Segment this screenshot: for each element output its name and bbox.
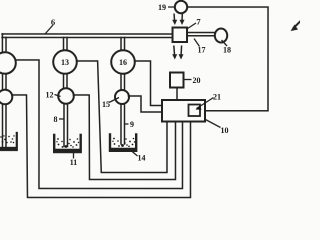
leader line label 7 (186, 23, 196, 30)
controller box 10 (162, 100, 205, 122)
stipple in beaker 1 (0, 135, 15, 143)
wire dispenser1 to controller (12, 95, 191, 198)
dispenser 15 (115, 90, 129, 104)
pump 13 (53, 50, 77, 74)
leader line label 14 (131, 150, 138, 156)
dial 19 (175, 1, 187, 13)
arrowhead for label 21 (195, 106, 201, 110)
arrow from dial 19 to gearbox (right) (181, 14, 183, 22)
shaft drop to pump column 1 (2, 34, 6, 53)
beaker 11 (center) (54, 135, 81, 152)
drive shaft bus 6 (double line) (2, 34, 173, 38)
wire dispenser15 to controller (128, 96, 162, 112)
stirrer rod 9 (121, 103, 125, 144)
svg-text:8: 8 (53, 115, 57, 124)
shaft between pump 13 and dispenser 12 (64, 73, 68, 88)
leader line label 10 (205, 120, 220, 128)
wire pump1 to controller (15, 60, 182, 189)
figure pointer arrow top right (293, 21, 301, 29)
svg-text:13: 13 (61, 58, 69, 67)
pump 16 (111, 50, 135, 74)
display 21 (188, 105, 200, 117)
svg-text:19: 19 (158, 3, 166, 12)
stipple in beaker 14 (112, 138, 135, 148)
svg-text:15: 15 (102, 100, 110, 109)
leader line label 19 (168, 6, 175, 8)
wire dispenser12 to controller (73, 95, 175, 180)
arrow below gearbox (right) (180, 46, 183, 57)
svg-text:14: 14 (137, 153, 145, 162)
beaker 14 (110, 134, 136, 150)
pump 1 (left, cut off) (0, 52, 16, 74)
svg-text:21: 21 (213, 93, 221, 102)
shaft between pump 1 and dispenser 1 (3, 73, 7, 90)
dispenser 1 (left small circle) (0, 90, 12, 105)
svg-text:7: 7 (196, 17, 201, 27)
leader line label 20 (184, 79, 192, 81)
arrow below gearbox (left) (173, 46, 176, 57)
shaft between pump 16 and dispenser 15 (121, 73, 125, 90)
svg-text:11: 11 (70, 158, 78, 167)
wire pump13 to controller (76, 61, 167, 173)
wire pump16 to controller (134, 61, 162, 106)
svg-text:20: 20 (193, 76, 201, 85)
leader line label 8 (59, 118, 64, 120)
leader line label 21 (arrow) (196, 98, 213, 109)
leader line label 6 (45, 25, 53, 34)
svg-text:12: 12 (46, 90, 54, 99)
sensor 20 (170, 73, 184, 88)
wire dial19 feedback loop (187, 7, 268, 111)
motor 18 (215, 29, 227, 43)
leader line label 12 (55, 94, 61, 96)
svg-text:6: 6 (51, 17, 55, 27)
svg-text:18: 18 (223, 46, 231, 55)
leader line label 9 (125, 123, 129, 125)
gearbox 7 (173, 28, 188, 43)
svg-text:16: 16 (119, 58, 127, 67)
stirrer rod 8 (64, 103, 68, 146)
beaker 11 (left, cut off) (0, 133, 17, 150)
shaft drop to pump column 3 (121, 37, 125, 50)
stipple in beaker 11 (56, 138, 79, 148)
leader line label 15 (109, 97, 119, 102)
leader line label 18 (222, 40, 228, 46)
leader line label 17 (194, 39, 200, 47)
svg-text:9: 9 (130, 120, 134, 129)
arrow from dial 19 to gearbox (left) (172, 14, 301, 60)
wire sensor20 to controller (176, 88, 178, 101)
stirrer rod column 1 (2, 104, 6, 147)
dispenser 12 (58, 88, 74, 104)
leader line label 11 (72, 152, 74, 158)
shaft drop to pump column 2 (64, 37, 68, 50)
svg-text:10: 10 (220, 126, 228, 135)
svg-text:17: 17 (198, 46, 206, 55)
shaft 17 gearbox to motor (double line) (187, 33, 216, 36)
